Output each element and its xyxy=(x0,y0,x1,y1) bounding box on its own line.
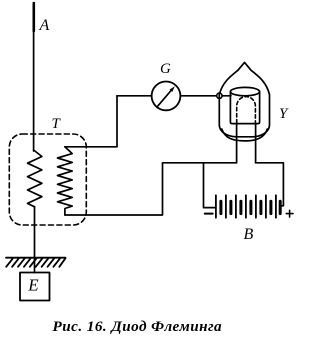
wire to galvanometer xyxy=(117,95,152,97)
wire battery positive riser xyxy=(256,163,284,206)
wire secondary top to riser xyxy=(65,146,117,148)
wire galvanometer to tube terminal xyxy=(180,95,216,97)
anode plate cylinder top xyxy=(230,87,259,95)
wire battery negative drop xyxy=(204,163,216,208)
inductor L1 primary coil of T xyxy=(28,150,42,207)
node plate terminal dot xyxy=(217,93,222,98)
svg-text:G: G xyxy=(160,61,171,77)
ground earth hatching xyxy=(6,258,66,267)
earth electrode box E xyxy=(20,273,50,301)
battery B long plates xyxy=(216,195,276,217)
galvanometer G body xyxy=(152,82,181,111)
svg-text:E: E xyxy=(27,276,39,295)
wire terminal to anode xyxy=(222,95,231,97)
inductor L2 secondary coil of T xyxy=(58,147,73,215)
transformer T dashed enclosure xyxy=(9,134,86,225)
vacuum tube Y base seal arc xyxy=(222,129,267,141)
wire antenna lead-in upper thick segment xyxy=(32,3,35,31)
svg-text:Рис. 16. Диод Флеминга: Рис. 16. Диод Флеминга xyxy=(53,318,223,335)
wire primary to earth xyxy=(34,207,36,273)
wire bottom bus from secondary to cathode xyxy=(65,163,237,215)
wire riser to galvanometer level xyxy=(116,96,118,147)
galvanometer needle xyxy=(157,90,172,107)
minus label xyxy=(205,213,213,215)
filament cathode dashed xyxy=(237,97,256,123)
plus label xyxy=(286,210,293,217)
wire cathode lead left xyxy=(236,124,238,163)
vacuum tube Y envelope xyxy=(219,62,269,136)
svg-text:A: A xyxy=(39,17,50,34)
galvanometer needle arrowhead xyxy=(170,86,175,92)
wire cathode lead right xyxy=(255,124,257,163)
svg-text:B: B xyxy=(244,226,254,243)
anode plate cylinder body xyxy=(230,92,259,124)
wire antenna lead-in xyxy=(33,3,35,151)
battery B short plates xyxy=(221,201,280,213)
